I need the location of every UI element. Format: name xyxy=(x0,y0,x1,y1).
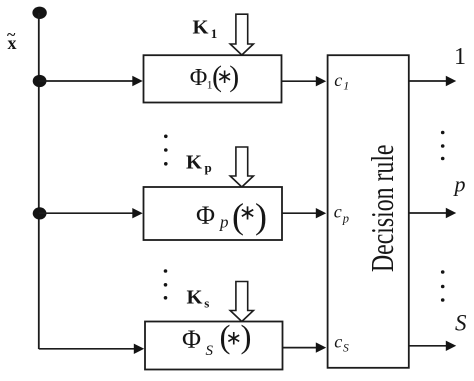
svg-text:Φ: Φ xyxy=(196,201,215,230)
weight arrow Kp (hollow down arrow) xyxy=(230,147,253,187)
wire box PHIp output to decision box xyxy=(282,208,326,218)
dots right upper xyxy=(441,131,445,161)
svg-text:): ) xyxy=(229,60,239,93)
svg-text:~: ~ xyxy=(7,27,16,44)
svg-text:c: c xyxy=(334,331,342,351)
wire box PHIS output to decision box xyxy=(283,342,327,352)
box PHIS xyxy=(145,322,283,370)
label PHI1(*) inside box PHI1 xyxy=(190,60,240,93)
svg-text:S: S xyxy=(343,342,349,354)
label cp xyxy=(334,201,349,225)
wire branch-S to box PHIS xyxy=(39,344,144,354)
wire branch-p to box PHIp xyxy=(39,208,143,218)
label PHIS(*) inside box PHIS xyxy=(182,320,252,360)
svg-text:): ) xyxy=(241,320,252,356)
node branch-1 xyxy=(33,75,47,87)
svg-text:Φ: Φ xyxy=(182,325,201,354)
svg-text:Decision rule: Decision rule xyxy=(365,145,400,273)
svg-text:c: c xyxy=(334,70,342,90)
label KS xyxy=(187,287,210,311)
svg-text:p: p xyxy=(205,160,212,175)
wire input-bus vertical xyxy=(38,13,40,349)
svg-text:p: p xyxy=(453,172,466,197)
dots right lower xyxy=(441,270,445,302)
svg-text:1: 1 xyxy=(454,44,466,70)
wire decision output p xyxy=(409,208,456,218)
svg-text:1: 1 xyxy=(211,26,218,41)
wire decision output 1 xyxy=(409,76,456,86)
box decision rule xyxy=(328,55,409,368)
weight arrow K1 (hollow down arrow) xyxy=(230,14,253,55)
svg-text:): ) xyxy=(255,196,267,236)
weight arrow KS (hollow down arrow) xyxy=(230,282,253,322)
svg-text:K: K xyxy=(187,287,203,309)
box PHIp xyxy=(144,187,283,240)
box PHI1 xyxy=(144,55,282,102)
svg-text:s: s xyxy=(204,295,209,310)
svg-text:1: 1 xyxy=(343,79,349,93)
svg-text:c: c xyxy=(334,201,342,221)
svg-text:p: p xyxy=(219,213,229,232)
svg-text:Φ: Φ xyxy=(190,65,208,91)
label PHIp(*) inside box PHIp xyxy=(196,196,267,236)
wire decision output S xyxy=(409,341,456,351)
label Kp xyxy=(186,151,212,175)
svg-text:p: p xyxy=(342,212,349,226)
node branch-p xyxy=(33,207,47,219)
svg-text:S: S xyxy=(455,310,467,335)
node input-top xyxy=(32,7,46,19)
label c1 xyxy=(334,70,349,93)
dots left above Kp xyxy=(164,135,168,166)
svg-text:∗: ∗ xyxy=(239,200,257,224)
label x-tilde xyxy=(7,27,17,54)
wire box PHI1 output to decision box xyxy=(282,76,327,86)
svg-text:K: K xyxy=(186,151,202,173)
label K1 xyxy=(193,16,218,41)
wire branch-1 to box PHI1 xyxy=(39,76,143,86)
label cS xyxy=(334,331,349,354)
svg-text:K: K xyxy=(193,16,209,38)
svg-text:S: S xyxy=(206,343,214,359)
dots left above KS xyxy=(164,269,168,299)
